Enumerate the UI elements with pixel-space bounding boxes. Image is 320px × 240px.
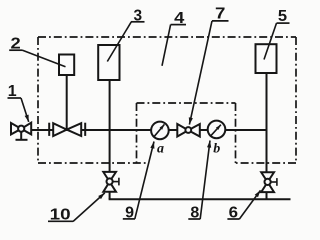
valve 1 (inlet three-way cock) bbox=[11, 123, 31, 140]
valve 10 (purge cock, left drop) bbox=[103, 172, 119, 192]
wire: vertical line box 5 / valve 6 branch bbox=[266, 73, 268, 199]
label 1 with leader bbox=[8, 83, 29, 122]
svg-text:b: b bbox=[213, 142, 220, 157]
label 7 with leader bbox=[189, 6, 229, 125]
label 9 with leader bbox=[123, 142, 155, 222]
label 8 with leader bbox=[188, 141, 211, 222]
label 10 with leader bbox=[48, 193, 105, 224]
svg-text:a: a bbox=[157, 142, 164, 157]
wire: bottom outlet pipe bbox=[110, 198, 291, 199]
valve 7 (cock between gauges) bbox=[177, 124, 200, 137]
box 2 (filter) bbox=[59, 55, 74, 76]
box 5 (relief device) bbox=[256, 44, 277, 73]
wire: stem from box 2 down to valve bbox=[66, 75, 68, 130]
label 2 with leader bbox=[9, 35, 65, 67]
inner dashed enclosure (metering section) bbox=[137, 103, 236, 163]
label 6 with leader bbox=[227, 190, 260, 221]
flanged valve below box 2 bbox=[49, 123, 85, 136]
gauge b (manometer) bbox=[208, 121, 226, 139]
box 3 (safety shut-off device) bbox=[98, 45, 119, 80]
label 4 with leader bbox=[162, 10, 186, 66]
gauge a (manometer) bbox=[151, 122, 169, 140]
label 3 with leader bbox=[107, 7, 144, 61]
wire: vertical line box 3 / valve 10 branch bbox=[109, 80, 111, 199]
outer dashed enclosure (item 4, cabinet) bbox=[38, 37, 296, 163]
svg-text:7: 7 bbox=[215, 6, 226, 23]
wire: main horizontal pipe bbox=[31, 129, 267, 131]
label 5 with leader bbox=[264, 8, 290, 59]
valve 6 (purge cock, right drop) bbox=[261, 172, 277, 192]
